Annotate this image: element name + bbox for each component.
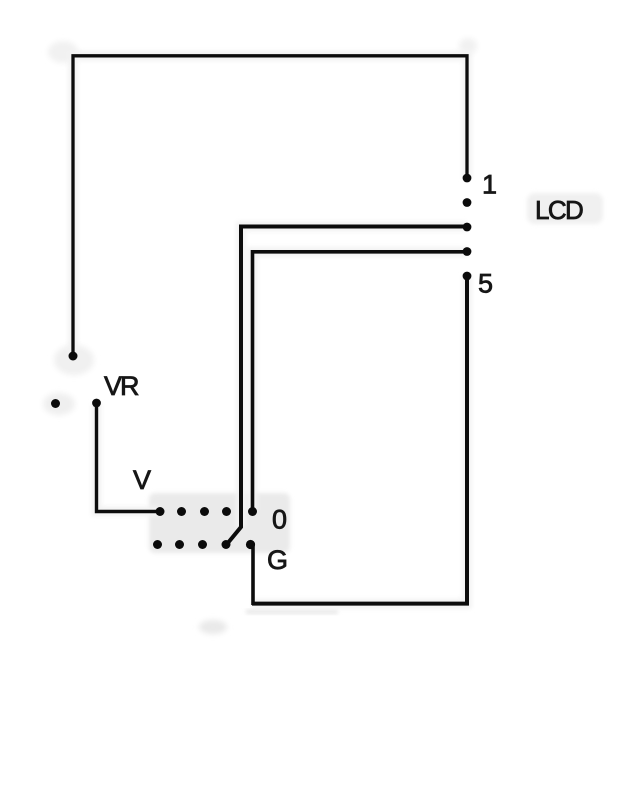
svg-text:0: 0	[272, 504, 287, 534]
svg-text:VR: VR	[104, 371, 139, 401]
svg-text:G: G	[267, 545, 288, 575]
svg-text:5: 5	[478, 269, 493, 299]
svg-text:LCD: LCD	[535, 195, 583, 225]
svg-text:1: 1	[482, 170, 497, 200]
svg-text:V: V	[133, 465, 151, 495]
